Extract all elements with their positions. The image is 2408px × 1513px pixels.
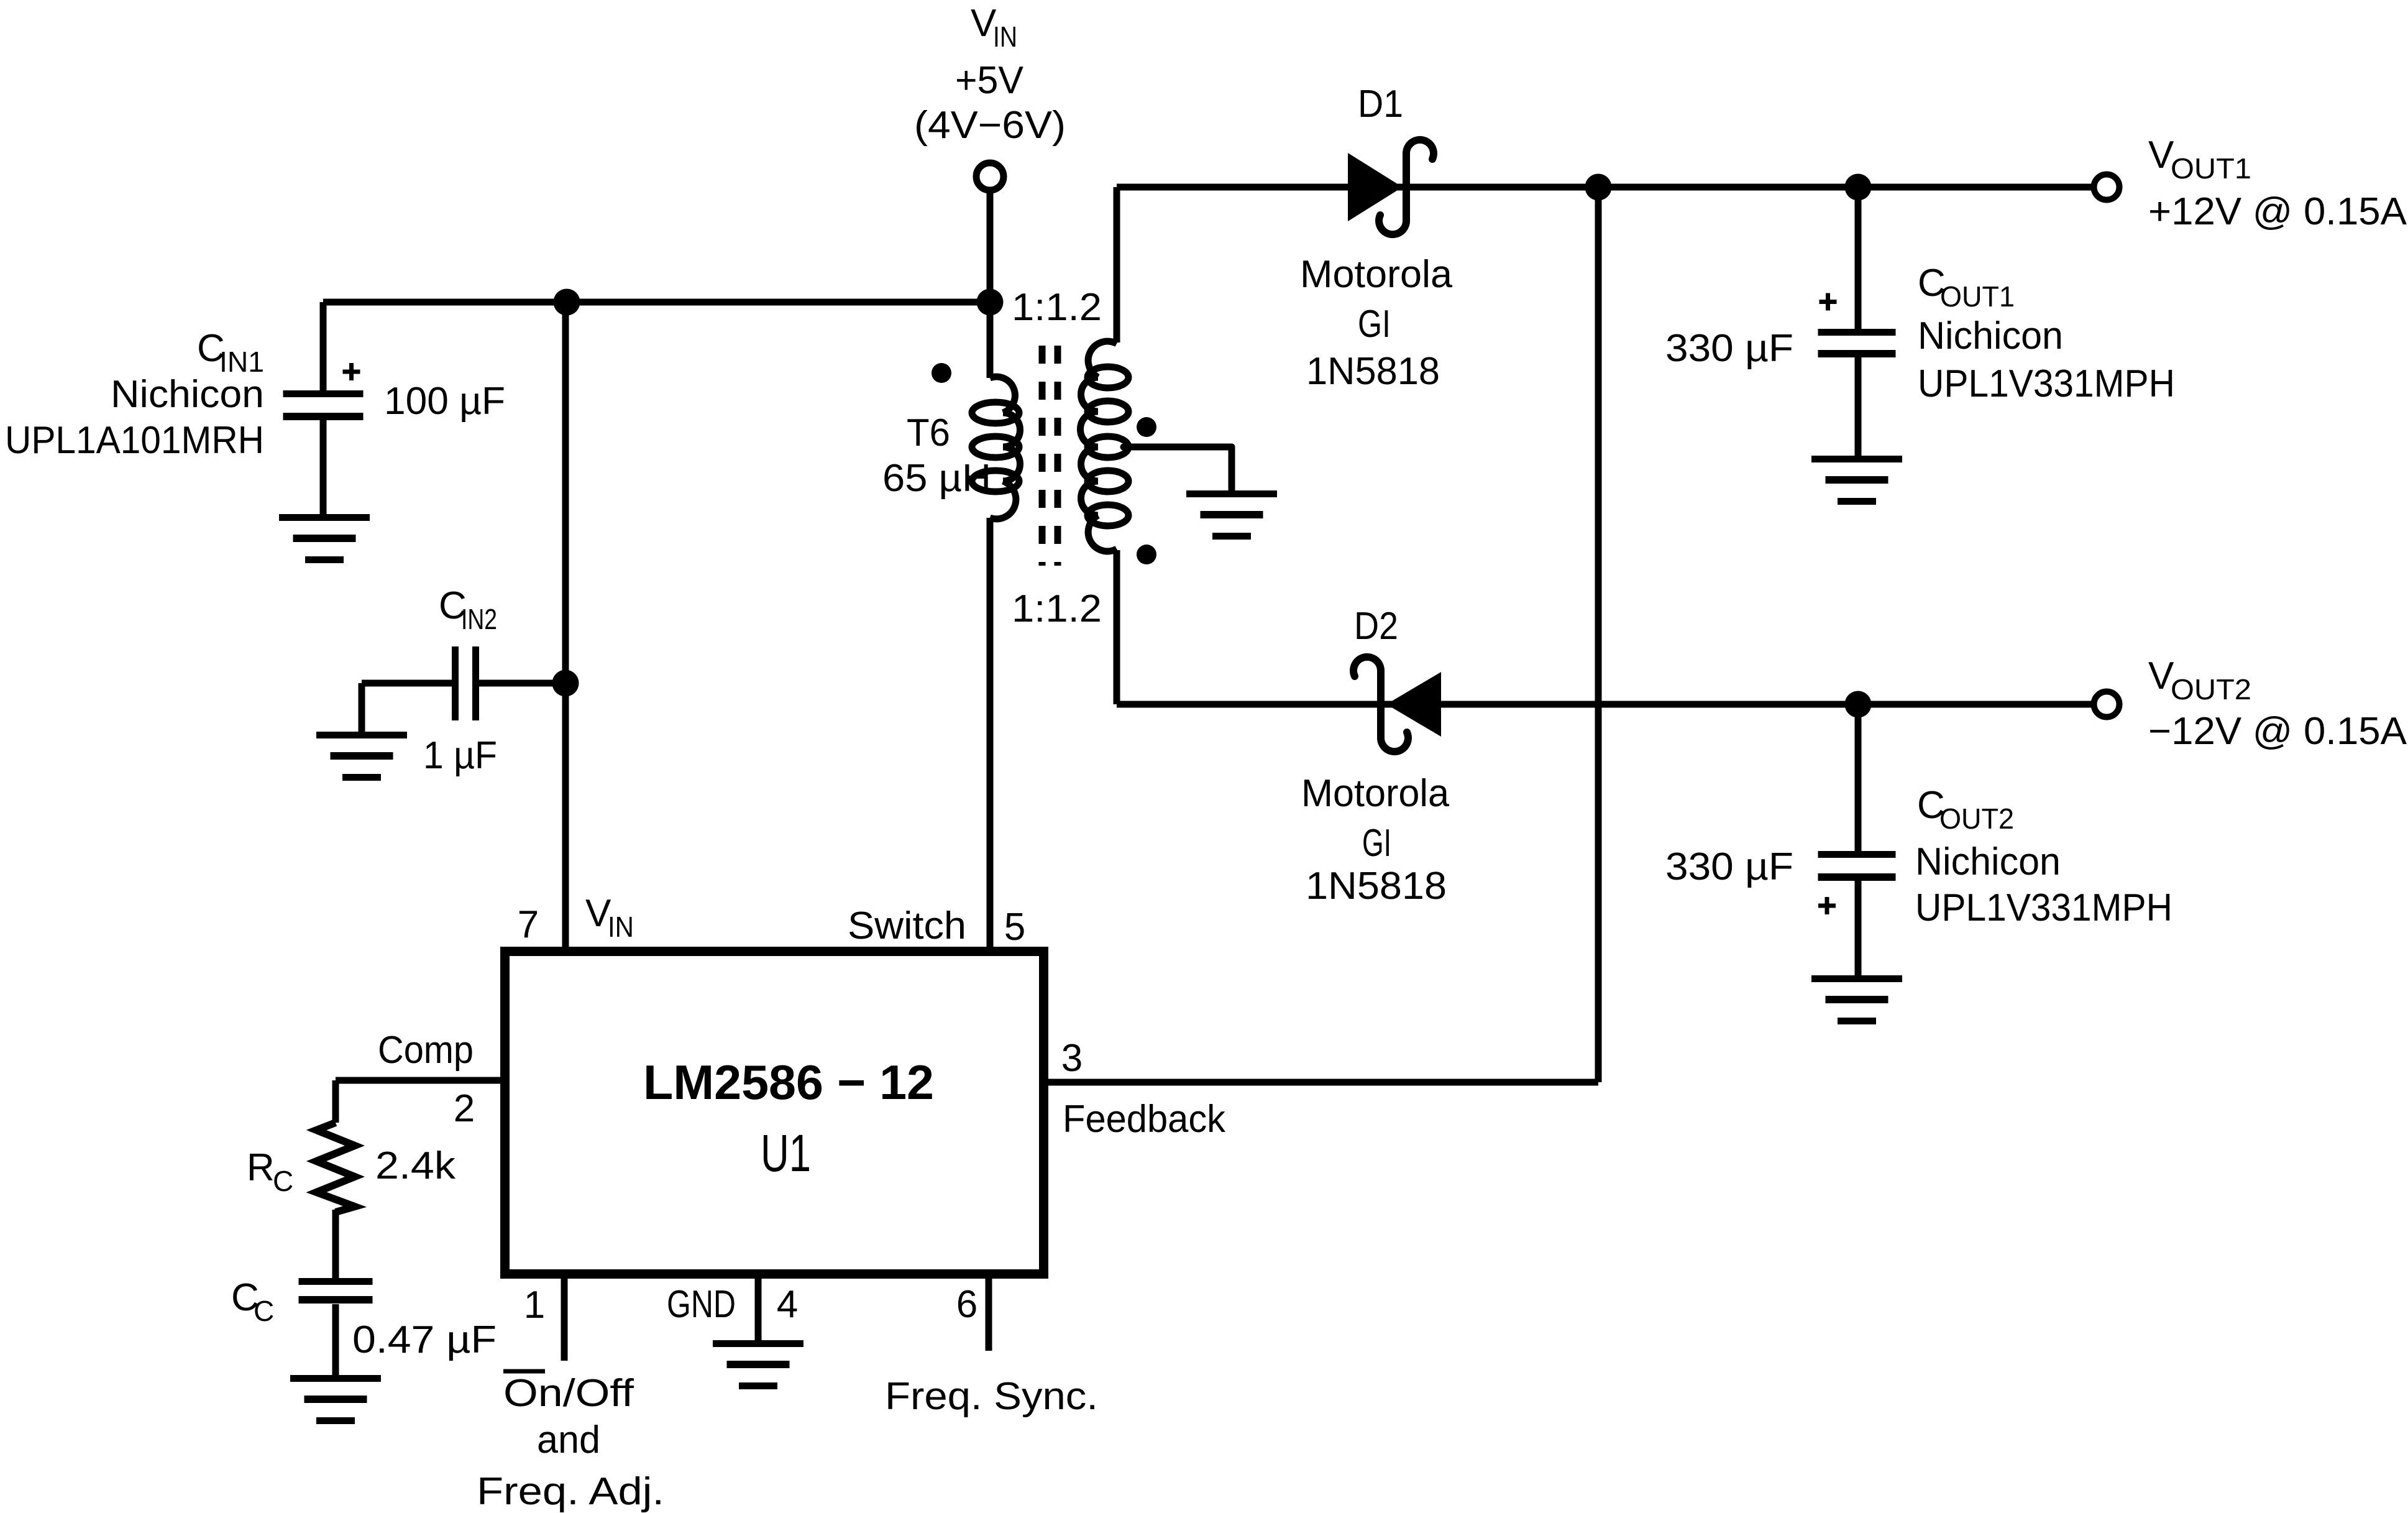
svg-text:+12V @ 0.15A: +12V @ 0.15A — [2148, 190, 2407, 233]
svg-text:GI: GI — [1358, 303, 1391, 346]
svg-text:5: 5 — [1004, 906, 1025, 949]
svg-text:+5V: +5V — [955, 59, 1024, 102]
svg-text:1: 1 — [524, 1284, 545, 1327]
svg-text:U1: U1 — [761, 1124, 811, 1182]
svg-text:−12V @ 0.15A: −12V @ 0.15A — [2148, 710, 2407, 753]
svg-text:OUT2: OUT2 — [1939, 802, 2014, 835]
svg-text:OUT1: OUT1 — [1940, 280, 2015, 313]
svg-text:C: C — [273, 1165, 293, 1197]
svg-text:UPL1V331MPH: UPL1V331MPH — [1915, 886, 2172, 929]
svg-text:GND: GND — [667, 1283, 736, 1326]
svg-text:1:1.2: 1:1.2 — [1012, 587, 1102, 630]
svg-text:UPL1A101MRH: UPL1A101MRH — [5, 419, 264, 462]
svg-text:330 µF: 330 µF — [1665, 845, 1793, 888]
svg-text:IN: IN — [993, 21, 1017, 53]
svg-text:Freq. Sync.: Freq. Sync. — [885, 1375, 1098, 1418]
svg-text:LM2586 − 12: LM2586 − 12 — [643, 1055, 934, 1110]
svg-text:3: 3 — [1061, 1037, 1083, 1080]
svg-text:4: 4 — [777, 1283, 798, 1326]
svg-text:On/Off: On/Off — [503, 1372, 634, 1415]
svg-text:GI: GI — [1362, 822, 1391, 865]
svg-text:Freq. Adj.: Freq. Adj. — [477, 1470, 664, 1513]
svg-text:D1: D1 — [1358, 83, 1403, 126]
svg-text:6: 6 — [956, 1283, 977, 1326]
svg-text:Switch: Switch — [848, 904, 966, 947]
svg-text:1 µF: 1 µF — [423, 734, 497, 777]
svg-text:0.47 µF: 0.47 µF — [352, 1318, 497, 1361]
svg-text:330 µF: 330 µF — [1665, 327, 1793, 370]
svg-text:Nichicon: Nichicon — [1918, 315, 2063, 357]
svg-text:and: and — [537, 1419, 600, 1461]
svg-text:1:1.2: 1:1.2 — [1012, 286, 1102, 329]
svg-text:7: 7 — [518, 903, 539, 946]
svg-text:(4V−6V): (4V−6V) — [914, 104, 1066, 147]
svg-text:Motorola: Motorola — [1300, 253, 1453, 296]
svg-text:IN2: IN2 — [461, 603, 497, 635]
svg-text:OUT2: OUT2 — [2171, 673, 2251, 706]
svg-text:2: 2 — [454, 1087, 475, 1130]
svg-text:Motorola: Motorola — [1301, 772, 1450, 815]
svg-text:100 µF: 100 µF — [384, 380, 505, 423]
svg-text:D2: D2 — [1354, 605, 1398, 648]
svg-text:2.4k: 2.4k — [375, 1144, 456, 1187]
svg-text:65 µH: 65 µH — [882, 457, 991, 500]
svg-text:R: R — [247, 1146, 275, 1189]
svg-text:1N5818: 1N5818 — [1306, 865, 1447, 908]
svg-text:T6: T6 — [907, 412, 950, 454]
svg-text:OUT1: OUT1 — [2171, 152, 2251, 185]
svg-text:C: C — [254, 1295, 274, 1327]
svg-text:Feedback: Feedback — [1063, 1098, 1226, 1141]
svg-text:IN: IN — [608, 911, 634, 943]
svg-text:Nichicon: Nichicon — [111, 373, 264, 416]
svg-text:1N5818: 1N5818 — [1306, 350, 1440, 393]
svg-text:UPL1V331MPH: UPL1V331MPH — [1918, 362, 2175, 405]
svg-text:Comp: Comp — [378, 1029, 474, 1072]
svg-text:Nichicon: Nichicon — [1915, 840, 2061, 883]
